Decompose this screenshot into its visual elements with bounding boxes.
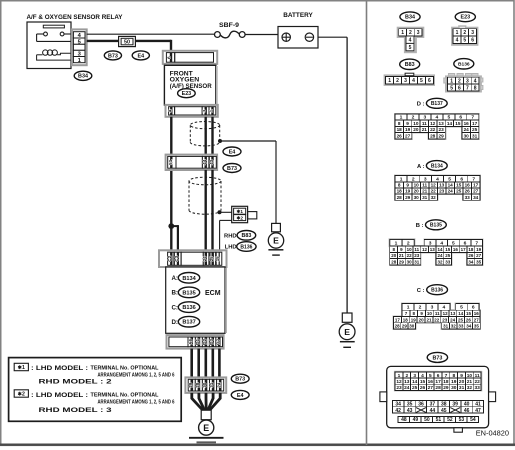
thick wire sensor pin3 down [204, 117, 206, 155]
svg-text:19: 19 [405, 189, 411, 194]
inline connector strip (sensor to harness) [166, 155, 218, 170]
svg-text:23: 23 [414, 253, 420, 258]
svg-text:29: 29 [399, 259, 405, 264]
svg-text:D1: D1 [195, 339, 200, 345]
svg-text:30: 30 [409, 324, 415, 329]
svg-text:E4: E4 [229, 149, 236, 155]
svg-text:11: 11 [422, 183, 427, 188]
svg-text:C2: C2 [167, 255, 172, 261]
svg-text:21: 21 [422, 189, 428, 194]
inline pin 51 cell [168, 156, 176, 168]
svg-text:14: 14 [458, 311, 464, 316]
connector diagram oval B34 [400, 12, 420, 22]
wire to ECM C2 [170, 226, 172, 252]
pin 3 [73, 50, 85, 57]
svg-text:10: 10 [413, 121, 419, 126]
junction dot shield to ground [218, 139, 222, 143]
inline wide cell [176, 156, 202, 168]
svg-text:50: 50 [424, 417, 430, 423]
thick wire ECM bottom 1 [190, 349, 193, 378]
wire branch to ECM C3 [171, 225, 178, 252]
svg-text:26: 26 [397, 134, 403, 139]
svg-text:EN-04820: EN-04820 [476, 429, 509, 438]
sensor bottom connector strip [166, 105, 218, 117]
svg-text:8: 8 [474, 85, 477, 91]
note *1 tag [14, 363, 28, 371]
thick wire ECM bottom 5 [218, 349, 221, 378]
svg-text:23: 23 [438, 127, 444, 132]
fusible link SBF-9 [215, 23, 246, 38]
svg-text:32: 32 [437, 259, 443, 264]
sensor bottom wide cell [175, 107, 203, 115]
svg-text:31: 31 [459, 385, 465, 391]
svg-text:17: 17 [395, 317, 401, 322]
svg-text:4: 4 [168, 109, 174, 112]
connector oval B73 (lower) [231, 374, 249, 383]
pin 5 [73, 38, 85, 45]
thick wire ECM bottom 2 [197, 349, 200, 378]
svg-text:7: 7 [466, 85, 469, 91]
shield (dashed cylinder) lower [189, 177, 221, 214]
svg-text:RHD MODEL : 2: RHD MODEL : 2 [39, 378, 113, 385]
svg-text:E: E [273, 236, 279, 246]
connector diagram oval B73 [427, 352, 447, 362]
svg-text:11: 11 [422, 121, 427, 126]
B134 connector housing [394, 175, 481, 202]
B137 row 4 pins 26-31 [395, 133, 479, 139]
svg-text:22: 22 [407, 253, 413, 258]
svg-text:C:: C: [171, 304, 178, 311]
svg-text:20: 20 [413, 127, 419, 132]
wire *2 terminal down to ECM [220, 220, 232, 252]
svg-text:33: 33 [465, 195, 471, 200]
wire shield to ground E [220, 141, 276, 223]
B136 row 4 pins 31-35 [442, 323, 481, 329]
svg-text:18: 18 [468, 247, 474, 252]
relay box [27, 22, 71, 69]
shield (dashed cylinder) upper [190, 122, 219, 146]
svg-text:2: 2 [409, 30, 412, 36]
svg-text:20: 20 [419, 317, 425, 322]
svg-text:14: 14 [448, 183, 454, 188]
svg-text:28: 28 [435, 385, 441, 391]
svg-text:3: 3 [404, 78, 407, 84]
svg-text:ARRANGEMENT AMONG 1, 2, 5 AND: ARRANGEMENT AMONG 1, 2, 5 AND 6 [98, 399, 175, 405]
B34 pin 4 [406, 36, 414, 44]
connector diagram label A: B134 [417, 161, 447, 171]
ECM top connector strip [159, 250, 227, 267]
B136 body with tabs [444, 74, 483, 92]
svg-text:B73: B73 [108, 53, 118, 59]
svg-text:26: 26 [468, 253, 474, 258]
svg-text:34: 34 [466, 324, 472, 329]
svg-text:22: 22 [434, 317, 440, 322]
svg-text:28: 28 [395, 324, 401, 329]
svg-text:48: 48 [401, 417, 407, 423]
svg-text:25: 25 [456, 189, 462, 194]
ECM pin 15 cell [215, 252, 222, 265]
thick wire ECM bottom 4 [212, 349, 215, 378]
svg-text:10: 10 [414, 183, 420, 188]
ECM pin C3 cell [174, 252, 181, 265]
svg-text:17: 17 [472, 121, 478, 126]
B73 pins 12-22 [395, 378, 481, 385]
svg-text:43: 43 [209, 159, 214, 165]
svg-text:5: 5 [409, 45, 412, 51]
lower inline pin 29 cell [188, 379, 195, 391]
svg-text:24: 24 [450, 317, 456, 322]
thick wire pin44 down to ECM [204, 170, 206, 252]
svg-text:50: 50 [124, 39, 130, 45]
lower inline pin 24 cell [216, 379, 223, 391]
svg-text:32: 32 [467, 385, 473, 391]
svg-text:✱1: ✱1 [18, 365, 25, 371]
svg-text:27: 27 [428, 385, 434, 391]
svg-text:3: 3 [202, 109, 208, 112]
svg-text:28: 28 [397, 195, 403, 200]
svg-text:ECM: ECM [205, 290, 221, 297]
svg-text:E: E [344, 327, 350, 337]
svg-text:30: 30 [414, 195, 420, 200]
svg-text:8: 8 [398, 183, 401, 188]
svg-text:9: 9 [406, 121, 409, 126]
svg-text:12: 12 [431, 183, 437, 188]
ECM pin D1 cell [195, 337, 202, 347]
B134 row 3 pins 18-27 [395, 188, 480, 194]
svg-text:31: 31 [472, 134, 478, 139]
svg-text:6: 6 [458, 85, 461, 91]
svg-text:TERMINAL No. OPTIONAL: TERMINAL No. OPTIONAL [91, 366, 159, 372]
svg-text:30: 30 [451, 385, 457, 391]
svg-text:12: 12 [443, 311, 449, 316]
svg-text:53: 53 [459, 417, 465, 423]
svg-text:8: 8 [398, 121, 401, 126]
ECM pin A6 cell [188, 337, 196, 347]
ground E (sensor shield) [268, 223, 283, 255]
svg-text:19: 19 [405, 127, 411, 132]
note *1 text LHD [31, 365, 159, 372]
svg-text:B136: B136 [458, 62, 470, 68]
ECM pin 25 cell [209, 252, 216, 265]
svg-text:4: 4 [409, 38, 412, 44]
svg-text:A:: A: [171, 275, 178, 282]
svg-text:1: 1 [209, 109, 215, 112]
svg-text:47: 47 [475, 408, 481, 414]
svg-text:13: 13 [450, 311, 456, 316]
svg-text:25: 25 [412, 385, 418, 391]
svg-text:15: 15 [215, 256, 220, 262]
svg-text:B73: B73 [432, 355, 442, 361]
svg-text:44: 44 [430, 408, 436, 414]
svg-text:B :: B : [416, 223, 424, 229]
ground E (ECM) [189, 420, 224, 442]
svg-text:27: 27 [474, 317, 480, 322]
drawing number EN-04820 [476, 429, 509, 438]
svg-text:2: 2 [458, 78, 461, 84]
svg-text:34: 34 [468, 259, 474, 264]
svg-text:32: 32 [431, 195, 437, 200]
B135 connector housing [389, 238, 484, 266]
svg-text:D7: D7 [215, 339, 220, 345]
svg-text:16: 16 [464, 121, 470, 126]
note *2 text LHD [31, 392, 159, 399]
B137 row 2 pins 8-17 [395, 120, 479, 126]
svg-text:B135: B135 [182, 290, 195, 296]
svg-text:18: 18 [397, 189, 403, 194]
connector strip B34 (relay pins) [72, 29, 87, 65]
sensor top connector strip [163, 51, 217, 64]
svg-text:45: 45 [441, 408, 447, 414]
ECM pin D3 cell [209, 337, 216, 347]
connector diagram oval B136 [454, 59, 474, 69]
svg-text:E4: E4 [138, 53, 145, 59]
svg-text:1: 1 [450, 78, 453, 84]
thick wire ECM bottom 3 [205, 349, 208, 378]
relay frame bar [43, 25, 64, 28]
svg-text:28: 28 [430, 134, 436, 139]
ECM connector B label B135 and ECM name [171, 287, 220, 298]
svg-text:C :: C : [417, 288, 425, 294]
svg-text:B136: B136 [182, 305, 195, 311]
svg-text:25: 25 [472, 127, 478, 132]
svg-text:11: 11 [435, 311, 440, 316]
ECM bottom connector strip [167, 335, 224, 349]
svg-text:31: 31 [443, 324, 449, 329]
svg-text:B73: B73 [227, 166, 237, 172]
svg-text:24: 24 [202, 256, 207, 262]
svg-text:A6: A6 [188, 339, 193, 345]
svg-text:51: 51 [168, 159, 173, 165]
svg-text:3: 3 [471, 30, 474, 36]
B73 body [380, 366, 496, 432]
front oxygen (A/F) sensor box [164, 65, 216, 105]
svg-text:34: 34 [473, 195, 479, 200]
svg-text:SBF-9: SBF-9 [219, 23, 240, 29]
ECM box [166, 267, 226, 333]
svg-text:5: 5 [420, 78, 423, 84]
svg-text:5: 5 [450, 85, 453, 91]
svg-text:21: 21 [422, 127, 428, 132]
svg-text:16: 16 [453, 247, 459, 252]
E23 pins 4-6 [453, 36, 476, 44]
svg-text:A/F & OXYGEN SENSOR RELAY: A/F & OXYGEN SENSOR RELAY [27, 14, 123, 21]
svg-text:33: 33 [458, 324, 464, 329]
converging ground wires [192, 393, 220, 411]
sensor pin 4 cell [168, 107, 175, 115]
ECM pin D2 cell [202, 337, 209, 347]
B136 row 1 pins 1-4 [402, 304, 450, 311]
svg-text:21: 21 [399, 253, 405, 258]
svg-text:22: 22 [430, 127, 436, 132]
B135 row 2 pins 8-19 [390, 246, 483, 252]
terminal box *1 / *2 [232, 206, 257, 222]
svg-text:13: 13 [430, 247, 436, 252]
svg-text:33: 33 [445, 259, 451, 264]
svg-text:24: 24 [437, 253, 443, 258]
svg-text:6: 6 [428, 78, 431, 84]
svg-text:27: 27 [476, 253, 482, 258]
svg-text:2: 2 [463, 30, 466, 36]
B73 pins 23-33 [395, 384, 481, 391]
B134 row 1 pins 1-7 [395, 176, 480, 183]
inline pin 44 cell [202, 156, 209, 168]
E23 body [452, 26, 477, 45]
svg-text:C3: C3 [174, 255, 179, 261]
svg-text:12: 12 [430, 121, 436, 126]
B137 row 1 pins 1-7 [395, 114, 479, 121]
B34 pins 1-3 [399, 29, 422, 36]
svg-text:✱2: ✱2 [236, 216, 243, 221]
B135 row 1 pins 1-2 [390, 240, 414, 247]
B73 pins 1-11 [395, 372, 481, 379]
svg-text:3: 3 [417, 30, 420, 36]
svg-text:D:: D: [171, 319, 178, 326]
svg-text:: LHD MODEL :: : LHD MODEL : [31, 365, 88, 372]
svg-text:15: 15 [466, 311, 472, 316]
B73 pin block housing [394, 371, 482, 392]
connector oval E4 (lower) [231, 390, 249, 399]
svg-text:1: 1 [401, 30, 404, 36]
svg-text:✱2: ✱2 [18, 392, 25, 398]
wire: battery to ground E [318, 37, 347, 313]
svg-text:29: 29 [188, 382, 193, 388]
svg-text:RHD: RHD [224, 233, 237, 239]
connector diagram oval E23 [455, 12, 475, 22]
B134 row 2 pins 8-17 [395, 182, 480, 188]
svg-text:25: 25 [458, 317, 464, 322]
B136 row 4 pins 28-30 [394, 323, 416, 329]
svg-text:17: 17 [473, 183, 479, 188]
lower inline pin 31 cell [209, 379, 216, 391]
svg-text:B73: B73 [235, 377, 245, 383]
svg-text:6: 6 [167, 56, 173, 59]
junction dot shield to *1 [218, 210, 222, 214]
B83 pins 1-6 [386, 76, 434, 84]
pin 1 [73, 57, 85, 64]
svg-text:31: 31 [209, 382, 214, 388]
svg-text:19: 19 [476, 247, 482, 252]
svg-text:23: 23 [396, 385, 402, 391]
svg-text:E23: E23 [461, 15, 471, 21]
svg-text:31: 31 [414, 259, 420, 264]
svg-text:29: 29 [405, 195, 411, 200]
svg-text:B134: B134 [182, 276, 196, 282]
relay switch contacts [37, 32, 73, 41]
svg-text:13: 13 [438, 121, 444, 126]
svg-text:28: 28 [391, 259, 397, 264]
B34 pin 5 [406, 43, 414, 51]
thick wire sensor pin4 down [170, 117, 172, 226]
svg-text:21: 21 [426, 317, 432, 322]
B134 row 4 pins 28-34 [395, 194, 480, 200]
sensor pin 1 cell [209, 107, 216, 115]
B135 row 3 pins 20-27 [390, 252, 483, 258]
battery [278, 12, 318, 48]
sensor top wide cell [175, 53, 214, 63]
svg-text:20: 20 [391, 253, 397, 258]
svg-text:52: 52 [447, 417, 453, 423]
svg-text:B:: B: [171, 290, 178, 297]
svg-text:10: 10 [407, 247, 413, 252]
svg-text:B34: B34 [78, 74, 88, 80]
svg-text:D2: D2 [202, 339, 207, 345]
svg-text:9: 9 [406, 183, 409, 188]
svg-text:10: 10 [427, 311, 433, 316]
svg-text:33: 33 [475, 385, 481, 391]
connector diagram B34 body [398, 28, 424, 53]
svg-text:29: 29 [402, 324, 408, 329]
panel divider line [366, 2, 368, 446]
svg-text:44: 44 [202, 159, 207, 165]
note *2 tag [14, 390, 28, 398]
svg-text:1: 1 [456, 30, 459, 36]
connector oval E4 (inline) [223, 147, 241, 156]
svg-text:46: 46 [464, 408, 470, 414]
lower inline pin 28 cell [195, 379, 202, 391]
thick wire pin43 down to ECM [211, 170, 213, 252]
svg-text:19: 19 [411, 317, 417, 322]
svg-text:29: 29 [443, 385, 449, 391]
ECM pin D7 cell [215, 337, 222, 347]
svg-text:14: 14 [447, 121, 453, 126]
ECM connector C label B136 [171, 302, 199, 313]
label: A/F & OXYGEN SENSOR RELAY [27, 14, 123, 21]
svg-text:5: 5 [463, 38, 466, 44]
svg-text:24: 24 [216, 382, 221, 388]
svg-text:E4: E4 [237, 393, 244, 399]
svg-text:4: 4 [412, 78, 415, 84]
svg-text:B83: B83 [241, 233, 251, 239]
svg-text:14: 14 [437, 247, 443, 252]
B136 row 3 pins 17-27 [394, 317, 481, 323]
note *2 text arrangement [98, 399, 175, 405]
svg-text:11: 11 [414, 247, 419, 252]
svg-text:E23: E23 [182, 91, 192, 97]
svg-text:15: 15 [455, 121, 461, 126]
svg-text:B135: B135 [430, 223, 442, 229]
ECM top wide cell [181, 252, 203, 265]
B135 row 1 pins 3-7 [424, 240, 482, 247]
ECM pin C2 cell [167, 252, 174, 265]
B137 connector housing [394, 113, 480, 140]
svg-text:30: 30 [202, 382, 207, 388]
svg-text:: LHD MODEL :: : LHD MODEL : [31, 392, 88, 399]
ground terminal box [201, 410, 211, 420]
ECM connector A label B134 [171, 273, 199, 284]
B83 body [385, 73, 434, 85]
svg-text:B136: B136 [240, 244, 252, 250]
svg-text:✱1: ✱1 [236, 209, 243, 214]
svg-text:32: 32 [451, 324, 457, 329]
lower inline connector strip [185, 377, 226, 393]
blank pin cell [73, 44, 85, 50]
connector diagram oval B83 [400, 59, 420, 69]
svg-text:D :: D : [417, 102, 425, 108]
note *1 text arrangement [98, 373, 175, 379]
ground E (battery) [339, 313, 355, 347]
note *2 text RHD [39, 407, 113, 414]
svg-text:30: 30 [464, 134, 470, 139]
sensor pin 6 cell [166, 53, 174, 63]
svg-text:26: 26 [420, 385, 426, 391]
inline pin 43 cell [209, 156, 216, 168]
svg-text:26: 26 [466, 317, 472, 322]
svg-text:4: 4 [456, 38, 459, 44]
connector oval E4 (relay wire) [132, 51, 149, 60]
B137 row 3 pins 18-25 [395, 126, 479, 132]
svg-text:B137: B137 [431, 101, 443, 107]
svg-text:27: 27 [405, 134, 411, 139]
